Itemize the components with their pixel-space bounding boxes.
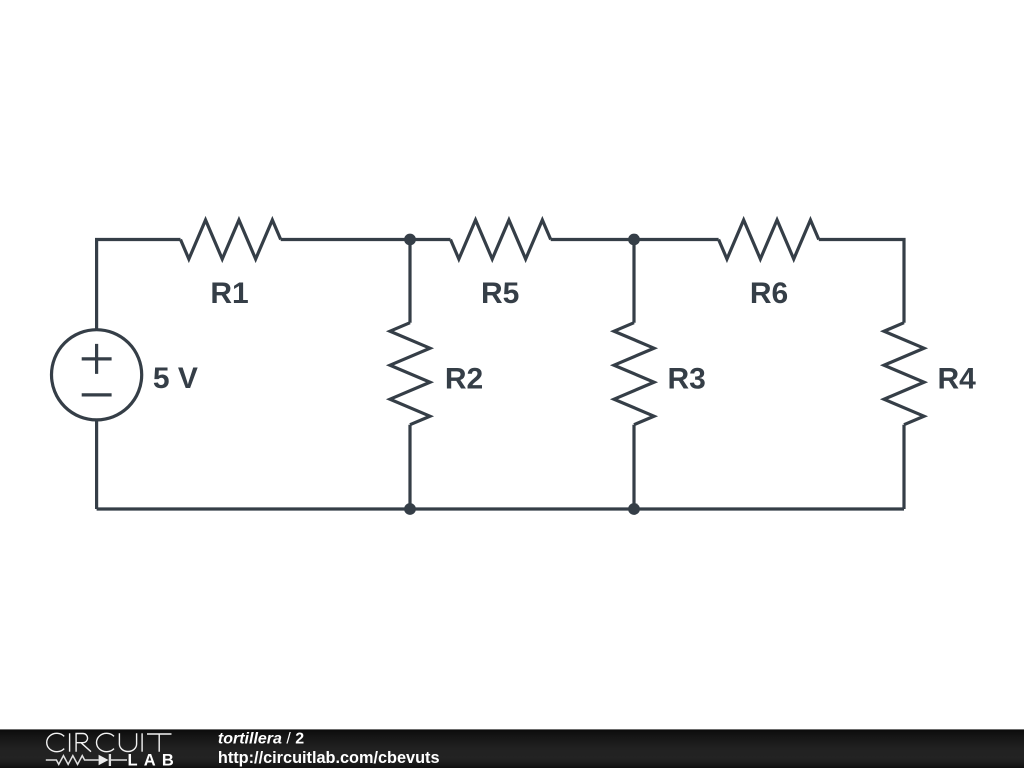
svg-text:R1: R1 (210, 277, 248, 310)
voltage source plus sign (82, 344, 112, 374)
wire node B to R6 left lead (634, 238, 719, 241)
wire node A to R5 left lead (410, 238, 451, 241)
wire R4 bottom to bottom-right corner (902, 425, 905, 509)
wire R6 to top-right corner down to R4 (819, 240, 904, 323)
node B junction dot (628, 234, 640, 246)
node A junction dot (404, 234, 416, 246)
svg-text:R5: R5 (481, 277, 519, 310)
resistor R3 (614, 323, 654, 425)
wire R5 to node B (551, 238, 634, 241)
wire from source top to R1 left lead (97, 240, 181, 330)
bottom wire (97, 507, 904, 510)
svg-text:R4: R4 (938, 363, 977, 396)
logo letter R (76, 734, 91, 752)
wire R3 bottom to node D (632, 425, 635, 509)
resistor R6 (719, 220, 819, 259)
svg-text:tortillera / 2: tortillera / 2 (218, 731, 304, 748)
node D junction dot (628, 503, 640, 515)
voltage source minus sign (82, 393, 112, 396)
resistor R4 (884, 323, 924, 425)
logo resistor-diode symbol (46, 754, 127, 766)
logo letter I (141, 733, 143, 751)
logo letter U (119, 733, 136, 751)
resistor R1 (181, 220, 281, 259)
logo diode triangle (99, 755, 109, 765)
resistor R2 (390, 323, 430, 425)
wire node B down to R3 top (632, 240, 635, 323)
CircuitLab logo: CIRCUIT wordmark (47, 733, 172, 751)
wire node A down to R2 top (408, 240, 411, 323)
logo letter T (147, 734, 172, 752)
wire source bottom lead (95, 420, 98, 509)
svg-text:R2: R2 (445, 363, 483, 396)
svg-text:5 V: 5 V (153, 362, 198, 395)
svg-text:LAB: LAB (128, 752, 181, 768)
wire R2 bottom to node C (408, 425, 411, 509)
node C junction dot (404, 503, 416, 515)
wire R1 to node A (281, 238, 410, 241)
voltage source V1 circle (52, 330, 142, 420)
logo letter C (97, 733, 114, 751)
svg-text:R3: R3 (668, 363, 706, 396)
resistor R5 (451, 220, 551, 259)
logo letter C (47, 733, 64, 751)
logo letter I (69, 733, 71, 751)
svg-text:http://circuitlab.com/cbevuts: http://circuitlab.com/cbevuts (218, 749, 440, 767)
svg-text:R6: R6 (750, 277, 788, 310)
